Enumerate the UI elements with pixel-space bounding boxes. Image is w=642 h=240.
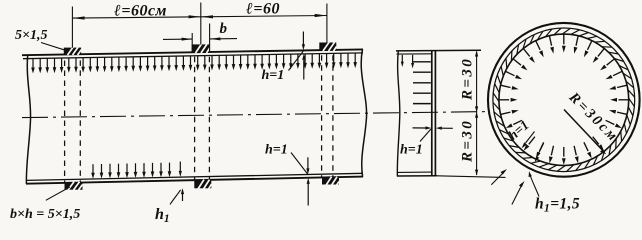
bottom wall outer line [26, 177, 363, 184]
ring R3 bottom cross-section (hatched) [323, 177, 340, 186]
ring R1 top cross-section (hatched) [64, 47, 81, 55]
strip top inner edge [397, 53, 432, 55]
top wall inner line [23, 53, 363, 59]
R dimension line vertical [476, 52, 478, 176]
hatching of ring annulus [493, 28, 635, 172]
radius arrow R=30cm [564, 110, 606, 155]
strip top outer edge + extension to R dimension [396, 49, 481, 52]
leader h=1 strip [420, 129, 431, 142]
h=1 top thickness dimension [302, 32, 306, 80]
dimension line l=60cm (left span) [72, 15, 200, 19]
inner circle [499, 34, 629, 165]
svg-text:5×1,5: 5×1,5 [15, 28, 47, 43]
svg-text:h=1: h=1 [265, 143, 288, 158]
middle circle [493, 28, 635, 172]
svg-text:h=1: h=1 [505, 117, 531, 143]
left break line [26, 55, 30, 184]
ring R3 dashed projection lines [322, 55, 333, 177]
svg-text:ℓ=60см: ℓ=60см [113, 3, 167, 20]
extra arrow to ring inner surface [535, 144, 544, 163]
pipe centerline (dash-dot) [22, 112, 488, 118]
h1 leader arrow B [512, 181, 525, 205]
h1 ring height dimension [179, 162, 184, 202]
ring R2 bottom cross-section (hatched) [195, 180, 212, 190]
svg-text:R=30: R=30 [460, 119, 476, 163]
leader h=1 to ring [522, 132, 535, 149]
ring R1 dashed projection lines [65, 60, 81, 182]
strip bottom inner edge [397, 171, 432, 173]
svg-text:h1=1,5: h1=1,5 [535, 196, 580, 215]
ring R3 top cross-section (hatched) [320, 42, 337, 51]
h1 curved leader from label [529, 171, 539, 196]
svg-text:R=30: R=30 [460, 57, 476, 101]
dimension b: extension lines [192, 24, 209, 53]
svg-text:b×h = 5×1,5: b×h = 5×1,5 [10, 207, 80, 222]
leader h=1 bottom [291, 153, 308, 175]
svg-text:h=1: h=1 [400, 143, 423, 158]
svg-text:h=1: h=1 [262, 68, 285, 83]
right break line [361, 49, 366, 177]
dimension l=60cm: extension lines [72, 3, 327, 48]
ring R1 bottom cross-section (hatched) [65, 182, 83, 190]
leader bxh to ring R1 bottom [46, 187, 70, 200]
strip load ladder rungs [413, 62, 431, 104]
bottom extension line toward circle [437, 176, 506, 178]
dimension b arrows [163, 37, 237, 40]
R dim arrowheads [475, 51, 478, 176]
ring R2 dashed projection lines [195, 57, 210, 180]
h=1 bottom thickness dimension [306, 157, 310, 205]
distributed pressure arrows above bottom wall [91, 163, 171, 179]
svg-text:ℓ=60: ℓ=60 [245, 1, 280, 18]
bottom wall inner line [26, 173, 363, 180]
h1 leader arrow A [491, 169, 507, 185]
strip wall vertical double line [431, 51, 433, 176]
leader from 5x1,5 to ring R1 [41, 43, 66, 51]
top wall outer line [22, 49, 363, 55]
svg-text:h1: h1 [155, 206, 170, 225]
svg-text:b: b [220, 21, 228, 37]
strip top pressure arrows [401, 55, 414, 69]
dimension line l=60 (right span) [201, 14, 327, 19]
leader h1 [170, 190, 181, 205]
strip bottom outer edge [397, 175, 437, 177]
radial load arrows inside ring [499, 35, 628, 165]
strip left break line [397, 51, 400, 177]
strip wall thickness dimension h=1 [413, 126, 453, 129]
outer circle [488, 23, 640, 177]
ring R2 top cross-section (hatched) [192, 44, 210, 53]
distributed external pressure arrows on top wall [31, 53, 357, 73]
leader h=1 top [289, 51, 304, 70]
